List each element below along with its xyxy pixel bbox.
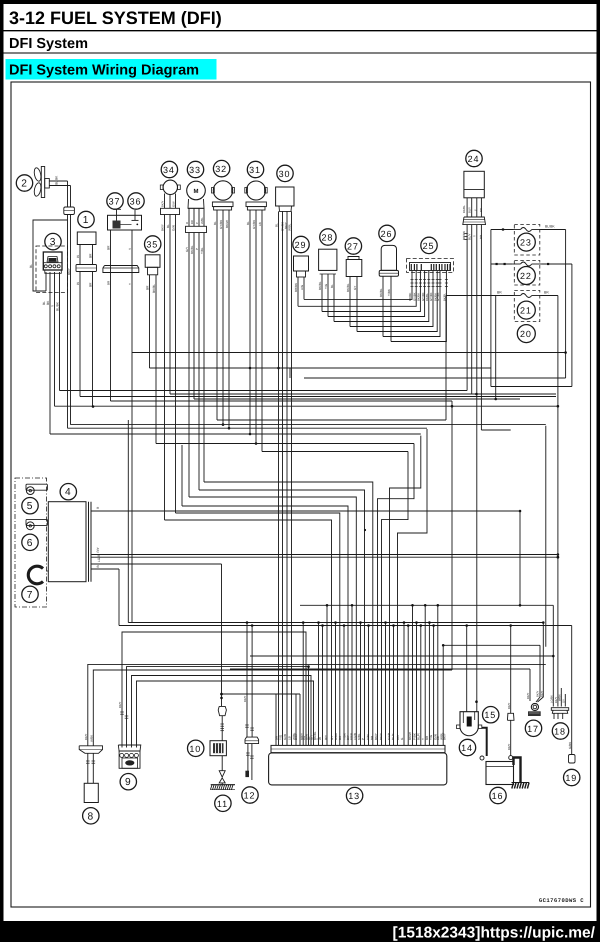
wire 37 pin	[131, 230, 133, 623]
wire 28 a	[321, 274, 323, 312]
wire 30 b	[282, 211, 284, 745]
svg-text:BK/Y: BK/Y	[374, 733, 378, 740]
svg-text:2: 2	[21, 179, 28, 190]
label circle 26	[379, 225, 395, 241]
wire 35 pin b	[155, 275, 157, 444]
wire 31 b	[255, 210, 257, 444]
label circle 7	[22, 586, 38, 602]
wire bundle extra 1b	[299, 694, 301, 745]
wire 4 RY2	[91, 556, 558, 558]
wire v119	[118, 569, 120, 626]
component 30 body	[276, 187, 294, 206]
wire 28 c	[333, 274, 335, 322]
svg-text:19: 19	[565, 773, 577, 783]
connector 1 bar	[76, 265, 97, 272]
wire 4 LGR	[91, 563, 222, 565]
svg-text:BK/BL: BK/BL	[346, 283, 350, 292]
wire 10 mid	[221, 716, 223, 741]
footer bar	[0, 921, 600, 942]
svg-text:28: 28	[322, 233, 334, 243]
label circle 30	[277, 165, 293, 181]
connector 12	[245, 737, 259, 744]
wire bus y401	[111, 400, 453, 402]
ignition switch 14	[460, 712, 478, 736]
wire bundle extra 21	[437, 605, 439, 745]
svg-text:Y/BK: Y/BK	[387, 289, 391, 296]
component 32 body	[213, 181, 232, 200]
component 10 body	[210, 741, 226, 756]
svg-text:12: 12	[244, 791, 256, 801]
wire zig right2	[390, 436, 421, 746]
wire 34 stubs	[164, 194, 166, 209]
wire bus y406	[55, 405, 558, 407]
wire bus y430	[481, 429, 510, 431]
wire h669	[230, 668, 530, 670]
wire 18 stub b	[564, 694, 566, 707]
wire 30 d	[291, 211, 293, 745]
wire v565 dot	[564, 351, 567, 354]
wire 3 pin BLBK	[59, 272, 61, 391]
wire 17 feeds	[538, 623, 544, 703]
wire v571 upper	[571, 264, 573, 387]
wire 12 pair top	[246, 623, 248, 738]
svg-text:W: W	[318, 737, 322, 740]
wire 9 c	[132, 676, 312, 748]
svg-text:24: 24	[468, 154, 480, 164]
svg-text:35: 35	[146, 240, 158, 250]
wire 26 a	[382, 276, 384, 336]
wire 35 pin a	[149, 275, 151, 368]
svg-text:[1518x2343]https://upic.me/: [1518x2343]https://upic.me/	[393, 925, 596, 942]
wire fuse23 right	[541, 229, 566, 231]
wire bus y352	[132, 352, 566, 354]
wire bundle extra 20	[433, 626, 435, 746]
svg-text:33: 33	[189, 165, 201, 175]
wire bundle extra 12b	[393, 626, 395, 746]
svg-text:Y: Y	[474, 209, 478, 211]
svg-text:BK/BL: BK/BL	[318, 281, 322, 290]
section highlight	[6, 59, 217, 80]
component 33 body	[187, 181, 206, 200]
connector 24 bar	[463, 217, 486, 225]
wire bundle extra 10	[360, 623, 362, 746]
wire 10 top	[221, 564, 223, 706]
svg-text:BL: BL	[246, 221, 250, 225]
wire bus y420	[217, 419, 446, 421]
wire 9 d	[137, 681, 314, 748]
wire bundle extra 8	[343, 626, 345, 746]
svg-text:P: P	[361, 738, 365, 740]
component 8 body	[84, 783, 98, 802]
wire 1 BR down	[92, 272, 94, 407]
svg-text:3: 3	[50, 237, 57, 248]
wire 12 pair bottom	[247, 744, 249, 777]
wire bundle extra 18	[424, 605, 426, 745]
svg-text:15: 15	[484, 710, 496, 720]
component 3 dashed box	[36, 246, 68, 293]
wire fan BL	[49, 185, 70, 187]
wire 26 b	[390, 276, 392, 341]
wire zig right4	[382, 452, 409, 746]
wire v446	[445, 296, 447, 421]
label circle 20	[517, 325, 535, 343]
wire 29 a	[297, 277, 299, 306]
svg-text:BR: BR	[89, 282, 93, 287]
svg-text:BK/Y: BK/Y	[507, 702, 511, 709]
svg-text:BR: BR	[190, 220, 194, 224]
wire 27 b	[356, 277, 358, 332]
svg-text:G/W: G/W	[172, 201, 176, 207]
label circle 34	[161, 161, 177, 177]
svg-text:13: 13	[348, 791, 360, 801]
wire 25 pin 3	[322, 271, 420, 312]
relay connector bar	[103, 266, 139, 273]
component 35 body	[145, 255, 160, 267]
svg-text:BR: BR	[497, 291, 502, 295]
label circle 11	[215, 795, 231, 811]
wire 18 stub a	[560, 688, 562, 707]
svg-text:14: 14	[461, 743, 473, 753]
svg-text:LB: LB	[258, 222, 262, 226]
wire h622	[128, 622, 543, 624]
ground 16	[512, 782, 530, 784]
fan connector	[64, 207, 75, 215]
label circle 33	[187, 161, 203, 177]
svg-text:W/BK: W/BK	[90, 735, 94, 742]
svg-text:GY: GY	[563, 699, 566, 703]
wire fan pair down	[67, 215, 69, 429]
wire h625	[119, 625, 572, 627]
svg-text:GY/BK: GY/BK	[219, 220, 223, 229]
wire 33 b	[193, 233, 195, 400]
svg-text:9: 9	[125, 777, 132, 788]
svg-text:W: W	[76, 255, 80, 258]
wire stair 3	[181, 445, 183, 506]
connector 19 body	[569, 755, 576, 764]
wire bundle extra 11	[368, 626, 370, 746]
wire 33 d	[203, 233, 205, 483]
svg-text:G/W: G/W	[172, 225, 176, 231]
wire 32 b	[222, 210, 224, 425]
svg-text:A/G: A/G	[300, 284, 304, 290]
svg-text:8: 8	[88, 811, 95, 822]
svg-text:BR: BR	[89, 253, 93, 258]
wire bundle extra 13	[403, 623, 405, 746]
wire bundle extra 5	[322, 626, 324, 746]
wire bus y451	[262, 451, 408, 453]
wire 25 pin 1	[304, 271, 412, 300]
label circle 25	[421, 237, 437, 253]
wire bus y394	[170, 393, 556, 395]
svg-text:18: 18	[554, 727, 566, 737]
svg-text:BK/Y: BK/Y	[161, 200, 165, 207]
wire h645	[443, 644, 540, 646]
component 3 connector	[43, 252, 62, 270]
wire 4 RY	[91, 554, 558, 556]
fuse 23 glyph	[512, 229, 521, 231]
fuse 22 glyph	[512, 263, 521, 265]
wire h605	[300, 604, 553, 606]
component 26 body	[381, 245, 396, 270]
label circle 15	[483, 707, 499, 723]
label circle 22	[517, 267, 535, 285]
ECU 13 body	[269, 753, 447, 785]
connector 32 bar	[212, 201, 233, 203]
wire fuse21 right	[541, 295, 558, 297]
wire bus y428	[68, 427, 428, 429]
wire bundle extra 15	[412, 605, 414, 745]
fuse 23 dashed box	[514, 225, 540, 256]
component 5 glyph	[26, 484, 47, 490]
wire bus y424	[71, 424, 546, 426]
label circle 6	[22, 534, 38, 550]
wire bundle extra 16	[416, 623, 418, 746]
ECU connector bar	[271, 745, 445, 752]
svg-text:22: 22	[520, 271, 532, 281]
svg-text:BR/BK: BR/BK	[462, 231, 466, 240]
wire 25 pin 7	[357, 271, 437, 332]
wire 34 b	[169, 215, 171, 395]
label circle 3	[45, 233, 61, 249]
wire 31 c	[261, 210, 263, 452]
wire 14 top b	[466, 626, 468, 712]
wire to 8 b	[93, 670, 452, 746]
component 28 body	[319, 249, 337, 270]
wire fan BK	[49, 180, 67, 182]
label circle 2	[16, 175, 32, 191]
wire 25 pin 4	[328, 271, 425, 317]
svg-text:G/BK: G/BK	[568, 742, 572, 749]
title rule	[4, 30, 597, 32]
wire 1 pins upper	[79, 245, 81, 265]
main fuse 17	[531, 703, 538, 710]
svg-text:GY: GY	[353, 286, 357, 290]
wire v553	[552, 605, 554, 706]
svg-text:37: 37	[109, 197, 121, 207]
wire fuse21 left	[446, 295, 514, 297]
fuse 21 glyph	[512, 295, 521, 297]
wire 4 B	[91, 568, 119, 570]
page border right	[597, 0, 600, 921]
components 5 6 7 dashed box	[15, 478, 47, 607]
svg-text:21: 21	[520, 306, 532, 316]
wire stair 5	[198, 489, 200, 491]
svg-text:BK/BL: BK/BL	[190, 245, 194, 254]
wire 3 pin BK	[49, 272, 51, 434]
page border top	[0, 0, 600, 4]
wire 1 W down	[79, 272, 81, 397]
svg-text:BL: BL	[55, 181, 59, 185]
wire bundle extra 12	[385, 623, 387, 746]
wire v545	[545, 426, 547, 647]
svg-text:BK/Y: BK/Y	[243, 695, 247, 702]
wire v529	[529, 669, 531, 701]
junction dots	[249, 367, 252, 370]
svg-text:W/BK: W/BK	[559, 694, 562, 701]
svg-text:7: 7	[27, 590, 34, 601]
svg-text:BK/Y: BK/Y	[118, 701, 122, 708]
wire v452	[451, 401, 453, 670]
wire bundle extra 19	[428, 623, 430, 746]
svg-text:BK/W: BK/W	[225, 220, 229, 228]
wire v443	[442, 645, 444, 745]
wire bus y390	[60, 390, 468, 392]
relay box 36 37	[108, 215, 142, 230]
wire v510 to battery	[510, 626, 512, 714]
inline connector 510	[507, 713, 514, 720]
component 1 body	[77, 232, 96, 245]
wire h656	[250, 655, 553, 657]
wire bus y396	[80, 396, 556, 398]
fuse 21 dashed box	[514, 291, 540, 322]
wire stair 4	[188, 496, 190, 498]
svg-text:BL/Y: BL/Y	[391, 733, 395, 740]
label circle 24	[466, 150, 482, 166]
wire fuse23 left	[491, 229, 514, 231]
connector 12 end	[245, 771, 249, 777]
wire fan drop pair	[67, 181, 69, 207]
wire 8 pair	[87, 753, 89, 783]
wire zig right3	[378, 444, 415, 746]
svg-text:BL: BL	[330, 284, 334, 288]
svg-text:BK/Y: BK/Y	[161, 224, 165, 231]
wire 19 feed	[571, 626, 573, 755]
wire 25 pin 6	[350, 271, 433, 327]
svg-text:4: 4	[65, 487, 72, 498]
svg-text:GY/BK: GY/BK	[252, 220, 256, 229]
wire to 9 b	[127, 667, 309, 748]
component 29 body	[294, 256, 309, 271]
svg-text:BR: BR	[146, 285, 150, 290]
svg-text:R: R	[185, 222, 189, 224]
svg-text:W: W	[76, 282, 80, 285]
wire stair 2	[175, 512, 177, 514]
label circle 18	[552, 723, 568, 739]
svg-text:BK/BL: BK/BL	[462, 205, 466, 213]
svg-text:5: 5	[27, 501, 34, 512]
connector 18 body	[551, 708, 568, 711]
wire 33 stubs	[188, 208, 190, 226]
svg-text:LG/R: LG/R	[97, 554, 101, 562]
label circle 27	[345, 238, 361, 254]
connector 33 bar	[186, 226, 207, 232]
svg-text:17: 17	[527, 724, 539, 734]
label circle 17	[525, 720, 541, 736]
wire 32 a	[216, 210, 218, 420]
svg-text:BR: BR	[544, 291, 549, 295]
svg-text:LB: LB	[288, 736, 292, 740]
wire 30 a	[278, 211, 280, 745]
svg-text:30: 30	[279, 169, 291, 179]
wire 24 b	[471, 225, 473, 394]
svg-text:16: 16	[492, 791, 504, 801]
wire 10 bottom	[221, 756, 223, 771]
component 27 body	[348, 257, 359, 260]
wire 33 c	[198, 233, 200, 491]
label circle 8	[83, 808, 99, 824]
svg-text:GY/BK: GY/BK	[436, 292, 440, 301]
label circle 1	[78, 211, 94, 227]
connector 25 bar	[410, 263, 451, 271]
wire 33 a	[188, 233, 190, 498]
wire to 8 a	[88, 664, 546, 745]
label circle 21	[517, 301, 535, 319]
svg-text:R/Y: R/Y	[324, 735, 328, 740]
svg-text:BL: BL	[275, 223, 279, 227]
wire 28 b	[327, 274, 329, 317]
svg-text:BR/BK: BR/BK	[294, 283, 298, 292]
wire bundle extra 7	[335, 623, 337, 746]
wire v495	[495, 296, 497, 400]
label circle 28	[320, 229, 336, 245]
component 9 body	[118, 745, 141, 751]
wire v540	[536, 645, 540, 702]
fuse 22 dashed box	[514, 261, 540, 286]
wire bundle extra 9	[351, 605, 353, 745]
svg-text:W/BL: W/BL	[288, 223, 292, 231]
wire bundle extra 17	[420, 626, 422, 746]
svg-text:31: 31	[249, 165, 261, 175]
svg-text:36: 36	[130, 197, 142, 207]
wire bundle extra 14	[407, 626, 409, 746]
wire bus y443	[156, 443, 414, 445]
wire bus y368	[150, 367, 491, 369]
wire fan BL loop	[33, 220, 68, 291]
svg-text:LG/BK: LG/BK	[551, 695, 554, 703]
wire 31 a	[249, 210, 251, 434]
wire h694	[222, 693, 301, 695]
ring terminal a	[480, 756, 484, 760]
component 24 body	[464, 171, 484, 198]
label circle 9	[120, 774, 136, 790]
connector 8 bar	[79, 746, 102, 754]
svg-text:25: 25	[423, 241, 435, 251]
wire jog 368	[289, 368, 291, 378]
fan motor 2 body	[41, 167, 44, 198]
svg-text:BL: BL	[29, 264, 33, 268]
ring terminal b	[509, 756, 513, 760]
svg-text:R/Y: R/Y	[96, 546, 100, 552]
wire 25 pin 5	[334, 271, 429, 322]
svg-text:BL: BL	[213, 221, 217, 225]
svg-text:BK/BL: BK/BL	[152, 284, 156, 293]
wire v520	[519, 511, 521, 605]
svg-text:Y/G: Y/G	[324, 283, 328, 289]
label circle 37	[107, 193, 123, 209]
wire 24 d	[480, 225, 482, 430]
wire bus y399	[194, 398, 520, 400]
svg-text:6: 6	[27, 538, 34, 549]
svg-text:BK/BL: BK/BL	[379, 288, 383, 297]
component 34 body	[163, 180, 177, 194]
svg-text:M: M	[194, 188, 199, 195]
label circle 5	[22, 498, 38, 514]
svg-text:20: 20	[520, 329, 532, 339]
component 6 glyph	[26, 519, 47, 525]
wire 25 pin 9	[391, 271, 446, 342]
label circle 13	[346, 787, 362, 803]
svg-text:10: 10	[189, 744, 201, 754]
component 31 body	[247, 181, 266, 200]
connector 31 bar	[246, 202, 266, 207]
svg-text:11: 11	[217, 799, 228, 809]
label circle 32	[213, 160, 229, 176]
svg-text:32: 32	[215, 164, 227, 174]
battery 16 cable	[514, 758, 521, 783]
wire bundle extra 6	[326, 605, 328, 745]
wire 3 pin Y	[54, 272, 56, 406]
wire v128	[127, 420, 129, 623]
